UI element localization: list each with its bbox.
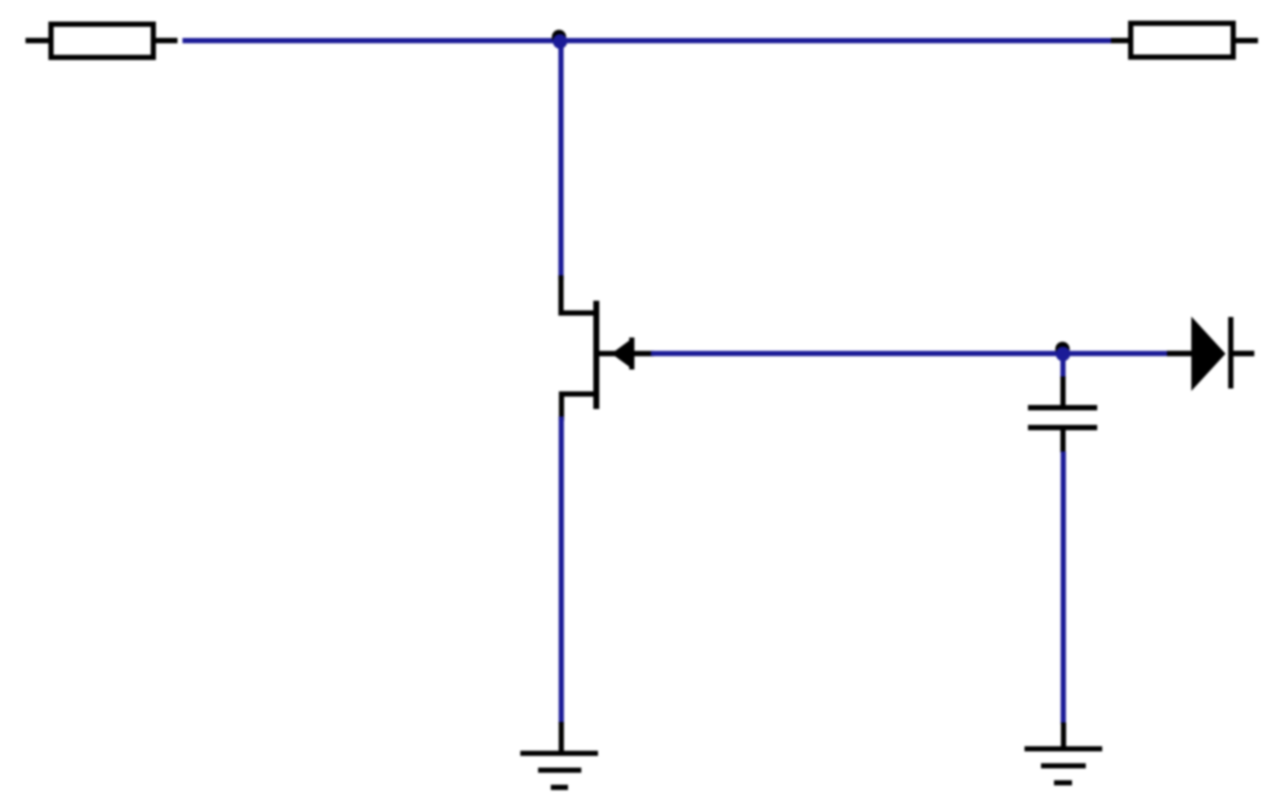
ground (right, below capacitor) bbox=[1025, 723, 1103, 783]
diode D1 bbox=[1167, 317, 1254, 392]
transistor Q1 (JFET) bbox=[561, 278, 651, 418]
wire junction down to capacitor bbox=[1060, 356, 1065, 378]
wire top net left segment bbox=[183, 38, 561, 43]
wire Q1 source down to ground bbox=[559, 417, 564, 724]
ground (left, below Q1) bbox=[520, 722, 598, 787]
resistor R1 bbox=[26, 24, 178, 57]
wire capacitor down to ground bbox=[1061, 452, 1066, 725]
wire top net right segment bbox=[560, 38, 1111, 43]
wire gate net to junction bbox=[651, 351, 1063, 356]
capacitor C1 bbox=[1028, 377, 1097, 453]
node junction at top wire bbox=[552, 30, 567, 49]
wire from junction down to Q1 drain bbox=[558, 43, 563, 280]
wire junction to diode bbox=[1063, 351, 1168, 356]
node junction at gate wire bbox=[1055, 342, 1070, 361]
resistor R2 bbox=[1111, 23, 1258, 57]
